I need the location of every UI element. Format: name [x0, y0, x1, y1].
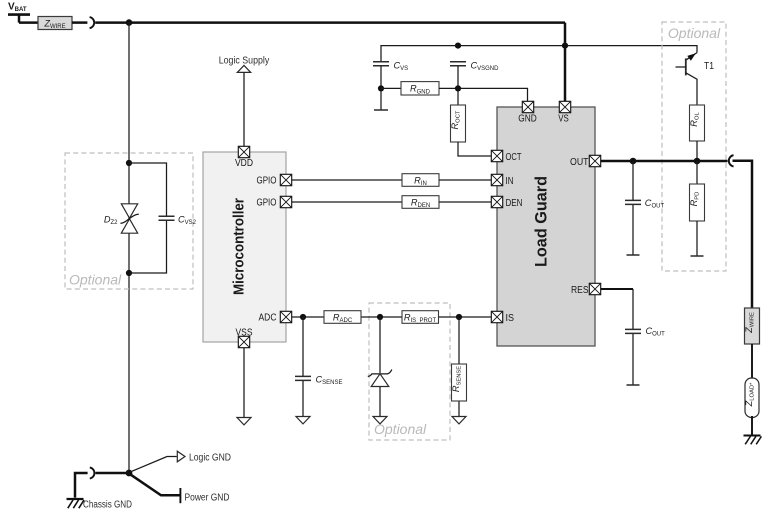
wire VS net top — [381, 46, 697, 62]
resistor RPD — [696, 161, 698, 184]
pin ADC — [280, 311, 291, 322]
wire RDEN to DEN pin — [439, 201, 491, 203]
capacitor CSENSE — [295, 376, 311, 380]
wire rail to break — [95, 472, 129, 475]
load ZLOAD* — [745, 378, 759, 418]
svg-text:VBAT: VBAT — [8, 2, 27, 14]
capacitor CVSGND — [450, 62, 466, 66]
ground bar (CVS) — [374, 109, 388, 111]
wire CVSGND down — [457, 66, 459, 105]
wire VS drop — [564, 23, 567, 102]
pin IS — [491, 311, 502, 322]
wire ROCT to OCT pin — [458, 142, 491, 156]
ground bar (COUT1) — [627, 254, 640, 256]
svg-text:Optional: Optional — [69, 272, 122, 288]
ground (zener) — [373, 417, 387, 424]
wire Power GND — [130, 474, 179, 495]
svg-text:DEN: DEN — [506, 198, 523, 209]
svg-text:DZ2: DZ2 — [104, 215, 118, 227]
svg-text:OUT: OUT — [570, 157, 589, 168]
capacitor COUT2 — [625, 329, 641, 333]
svg-text:COUT: COUT — [645, 198, 665, 210]
wire Logic GND — [131, 457, 177, 472]
wire VSS to ground — [243, 348, 245, 417]
chassis ground (left) — [67, 499, 85, 508]
pin DEN — [491, 196, 502, 207]
pin RES — [589, 283, 600, 294]
svg-text:Microcontroller: Microcontroller — [231, 198, 248, 295]
wire ZWIRE to ZLOAD — [751, 344, 753, 378]
node junction bottom left rail — [126, 470, 133, 477]
wire ZWIRE to break — [72, 21, 87, 24]
wire left rail vertical — [128, 23, 130, 473]
capacitor CVS2 — [159, 216, 175, 220]
wire RSENSE drop — [458, 317, 460, 416]
ground (CSENSE) — [296, 417, 310, 424]
connector break (chassis) — [90, 467, 95, 478]
wire zener drop — [379, 317, 381, 416]
ground bar (COUT2) — [627, 384, 640, 386]
wire RPD to bar — [696, 221, 698, 256]
diode D1 (zener clamp) — [368, 370, 392, 377]
pin VS — [559, 101, 570, 112]
pin VDD — [238, 146, 249, 157]
wire VBAT to ZWIRE — [19, 15, 38, 23]
svg-text:VS: VS — [558, 113, 569, 124]
node junction top of DZ2 — [126, 160, 132, 166]
svg-text:Optional: Optional — [374, 421, 427, 437]
svg-text:Load Guard: Load Guard — [532, 176, 551, 267]
pin GPIO2 — [280, 196, 291, 207]
svg-text:IS: IS — [506, 313, 515, 324]
pin VSS — [238, 336, 249, 347]
resistor RDEN — [402, 196, 439, 209]
connector break (OUT) — [729, 155, 734, 166]
ground (logic, below VSS) — [237, 418, 251, 425]
svg-text:CSENSE: CSENSE — [316, 375, 343, 387]
node junction zener — [377, 314, 383, 320]
svg-text:ADC: ADC — [259, 312, 277, 323]
svg-text:GPIO: GPIO — [257, 197, 277, 208]
node junction CSENSE — [300, 314, 306, 320]
wire break to chassis — [75, 473, 88, 498]
svg-text:OCT: OCT — [506, 152, 522, 163]
chassis ground (right) — [744, 436, 762, 445]
node junction bottom of DZ2 — [126, 270, 132, 276]
resistor RIS_PROT — [402, 311, 439, 324]
terminal Logic GND (right arrow) — [177, 451, 185, 462]
wire RIN to IN pin — [439, 179, 491, 181]
svg-text:Optional: Optional — [668, 25, 721, 41]
node junction RSENSE — [456, 314, 462, 320]
wire COUT1 drop — [632, 161, 634, 255]
wire CVS2 branch — [129, 163, 167, 273]
wire ROL to OUT net — [696, 141, 698, 161]
node junction CVSGND top — [455, 43, 461, 49]
pin OCT — [491, 150, 502, 161]
svg-text:VDD: VDD — [235, 158, 253, 169]
wire OUT to right rail — [733, 161, 753, 308]
wire ZLOAD to chassis — [751, 416, 753, 435]
wire CSENSE drop — [302, 317, 304, 416]
svg-text:COUT: COUT — [646, 326, 666, 338]
svg-text:Logic GND: Logic GND — [189, 452, 231, 463]
resistor RADC — [324, 311, 361, 324]
resistor RIN — [402, 174, 439, 187]
pin OUT — [589, 155, 600, 166]
Load Guard U1 body — [497, 107, 595, 346]
resistor ZWIRE (battery wire impedance) — [38, 17, 72, 30]
pin GND — [522, 101, 533, 112]
svg-text:GPIO: GPIO — [257, 175, 277, 186]
resistor ROCT — [451, 105, 466, 142]
svg-text:CVSGND: CVSGND — [471, 61, 500, 73]
wire RGND to GND pin — [439, 88, 528, 101]
wire Logic Supply to VDD — [243, 73, 245, 147]
node junction ROCT top — [455, 85, 461, 91]
pin IN — [491, 174, 502, 185]
svg-text:Power GND: Power GND — [185, 492, 230, 503]
resistor ZWIRE (load side) — [745, 308, 760, 344]
node junction COUT1 — [630, 158, 637, 165]
svg-text:RES: RES — [571, 285, 589, 296]
wire GPIO1 to RIN — [292, 179, 402, 181]
dashed optional box (T1) — [662, 22, 726, 271]
svg-text:T1: T1 — [704, 61, 714, 72]
wire GPIO2 to RDEN — [292, 201, 402, 203]
connector break (top left) — [90, 17, 95, 28]
dashed optional box (zener) — [369, 303, 450, 440]
resistor RGND — [381, 87, 401, 89]
ground (RSENSE) — [452, 417, 466, 424]
wire OUT net — [601, 160, 728, 163]
svg-text:IN: IN — [506, 176, 514, 187]
resistor ROL — [690, 105, 705, 141]
ground bar (RPD) — [691, 255, 704, 257]
dashed optional box (DZ2/CVS2) — [65, 153, 193, 289]
svg-text:VSS: VSS — [236, 328, 253, 339]
terminal Power GND (bar) — [179, 488, 181, 503]
node junction VS top — [562, 43, 568, 49]
wire ADC to IS net — [292, 316, 492, 318]
wire RES to COUT2 — [601, 288, 633, 290]
svg-text:CVS: CVS — [394, 61, 409, 73]
node junction RPD — [694, 158, 701, 165]
wire supply rail to VS — [95, 21, 565, 24]
svg-text:Chassis GND: Chassis GND — [83, 500, 132, 511]
pin GPIO1 — [280, 174, 291, 185]
microcontroller U2 body — [203, 152, 286, 342]
supply arrow (up triangle) — [237, 65, 250, 72]
wire CVS to GND bar — [380, 66, 382, 110]
diode DZ2 (bidirectional TVS) — [120, 204, 138, 233]
node junction supply/left rail — [126, 19, 133, 26]
node junction RGND left — [378, 85, 384, 91]
VBAT terminal bar — [8, 13, 30, 16]
capacitor COUT1 — [625, 200, 641, 204]
resistor RSENSE — [452, 364, 467, 401]
svg-text:GND: GND — [518, 113, 537, 124]
transistor T1 — [676, 53, 698, 105]
capacitor CVS — [373, 62, 389, 66]
svg-text:CVS2: CVS2 — [178, 215, 197, 227]
